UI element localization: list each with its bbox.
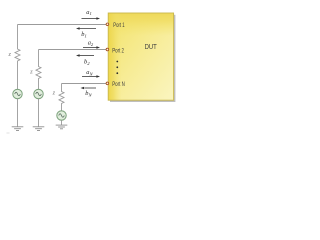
wire branch3 vertical bottom [61,120,63,125]
svg-text:Port N: Port N [112,82,125,88]
svg-text:z: z [52,90,56,97]
wire branch3 vertical top [61,84,63,91]
resistor Z3 [59,90,64,105]
source generator G2 [34,89,43,98]
arrow aN [82,75,100,78]
arrow a2 [83,46,100,49]
wire port2 horizontal [39,49,107,51]
ellipsis dots between ports [116,61,118,75]
source generator G1 [13,89,22,98]
DUT box shadow [110,15,175,102]
svg-text:DUT: DUT [145,42,157,51]
port N terminal [106,82,109,85]
arrow b2 [76,54,94,57]
ground G3 [56,125,68,129]
resistor Z2 [36,65,41,80]
wire branch2 vertical mid [38,80,40,89]
wire branch2 vertical bottom [38,99,40,127]
wire branch1 vertical bottom [17,99,19,127]
wire portN horizontal [62,83,107,85]
svg-text:Port 1: Port 1 [113,23,125,29]
svg-text:z: z [29,69,33,76]
wire port1 horizontal [18,24,107,26]
DUT box U1 [108,13,173,100]
ground G2 [33,127,45,131]
arrow a1 [82,17,101,20]
wire branch1 vertical mid [17,63,19,90]
arrow b1 [76,27,96,30]
wire branch3 vertical mid [61,105,63,111]
resistor Z1 [15,48,20,63]
svg-text:Port 2: Port 2 [112,48,124,54]
wire branch2 vertical top [38,50,40,66]
stray faint mark bottom-left [7,132,10,134]
wire branch1 vertical top [17,25,19,48]
ground G1 [12,127,24,131]
port 1 terminal [106,23,109,26]
svg-text:z: z [8,51,12,58]
source generator G3 [57,111,66,120]
port 2 terminal [106,48,109,51]
arrow bN [81,87,97,90]
